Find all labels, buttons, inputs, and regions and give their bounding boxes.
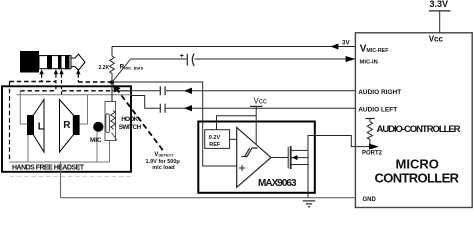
Vcc supply MAX9063 bbox=[217, 97, 267, 145]
wire node to hook switch bbox=[111, 82, 113, 101]
svg-text:+: + bbox=[180, 53, 184, 60]
wire AUDIO LEFT bbox=[131, 96, 160, 109]
svg-text:MAX9063: MAX9063 bbox=[258, 178, 297, 189]
transistor Q1 nmos bbox=[271, 146, 308, 169]
svg-text:MIC-IN: MIC-IN bbox=[360, 60, 378, 66]
jack contact arrow tip bbox=[76, 69, 80, 82]
wire tip to node dashed bbox=[78, 81, 110, 83]
svg-text:REF: REF bbox=[209, 142, 221, 148]
wire ring2 dashed left bbox=[20, 90, 56, 92]
wire ring2 dashed right bbox=[62, 90, 112, 92]
svg-text:VDETECT: VDETECT bbox=[154, 152, 174, 158]
arrow PORT2 bbox=[369, 144, 379, 150]
capacitor C1 polarized bbox=[180, 53, 194, 66]
wire MIC-IN diagonal bbox=[112, 59, 131, 82]
wire sleeve dashed left bbox=[10, 81, 56, 83]
wire mic ground drop bbox=[96, 132, 98, 162]
hands free headset box bbox=[2, 86, 131, 172]
wire drain to PORT2 bbox=[308, 136, 369, 151]
svg-text:GND: GND bbox=[363, 197, 377, 203]
svg-text:CONTROLLER: CONTROLLER bbox=[375, 171, 460, 186]
svg-text:3.3V: 3.3V bbox=[430, 0, 449, 9]
node mic-bias junction bbox=[110, 80, 114, 84]
arrow audio right bbox=[184, 88, 192, 94]
V_DETECT probe arrow bbox=[113, 84, 180, 171]
svg-text:HANDS FREE HEADSET: HANDS FREE HEADSET bbox=[12, 165, 85, 172]
svg-text:AUDIO RIGHT: AUDIO RIGHT bbox=[358, 89, 401, 96]
microcontroller box U2 bbox=[355, 33, 472, 208]
speaker R bbox=[60, 100, 80, 153]
wire hook ground drop bbox=[109, 141, 111, 163]
svg-text:MIC: MIC bbox=[90, 137, 102, 144]
arrow audio left bbox=[184, 105, 192, 111]
arrow MIC-IN in bbox=[346, 56, 356, 62]
capacitor C3 bbox=[160, 104, 165, 113]
svg-text:2.2K: 2.2K bbox=[99, 65, 110, 71]
wire sleeve dashed rail down bbox=[9, 82, 11, 163]
jack contact arrow ring1 bbox=[59, 69, 63, 95]
svg-text:RMIC_BIAS: RMIC_BIAS bbox=[120, 64, 144, 71]
wire headset to ground bus bbox=[60, 162, 62, 198]
svg-text:mic load: mic load bbox=[152, 165, 174, 171]
svg-text:MICRO: MICRO bbox=[396, 156, 439, 171]
headset box ghost dashed bottom bbox=[10, 176, 132, 178]
headset jack plug P1 bbox=[20, 51, 85, 73]
wire common return bbox=[10, 161, 110, 163]
op-amp comparator U1A bbox=[237, 128, 271, 188]
jack contact arrow ring2 bbox=[54, 69, 58, 91]
microphone MIC bbox=[90, 122, 103, 144]
wire L speaker feed bbox=[20, 91, 27, 124]
svg-text:L: L bbox=[38, 122, 44, 133]
MAX9063 box U1 bbox=[198, 122, 314, 193]
resistor AUDIO-CONTROLLER bbox=[365, 119, 460, 147]
svg-text:PORT2: PORT2 bbox=[362, 151, 383, 157]
wire L speaker ground drop bbox=[27, 135, 29, 162]
wire node to comparator bbox=[112, 82, 237, 166]
wire ring1 horizontal bbox=[17, 94, 132, 96]
svg-text:AUDIO LEFT: AUDIO LEFT bbox=[358, 107, 397, 114]
ground bus wire bbox=[61, 197, 356, 199]
resistor R_MIC_BIAS 2.2K bbox=[99, 47, 144, 81]
svg-text:SWITCH: SWITCH bbox=[119, 124, 142, 131]
wire V_MIC-REF (3V) bbox=[112, 46, 355, 48]
wire R speaker feed bbox=[80, 95, 88, 124]
wire source to ground bbox=[307, 150, 309, 197]
ground symbol bbox=[303, 201, 315, 207]
wire MIC-IN bbox=[131, 58, 187, 60]
speaker L bbox=[27, 100, 44, 153]
svg-text:Vcc: Vcc bbox=[254, 97, 267, 106]
arrow V_MIC-REF out bbox=[330, 44, 338, 50]
svg-text:0.2V: 0.2V bbox=[209, 135, 221, 141]
svg-text:AUDIO-CONTROLLER: AUDIO-CONTROLLER bbox=[377, 124, 461, 135]
3.3V supply bbox=[429, 0, 451, 44]
jack contact arrow sleeve bbox=[39, 69, 43, 81]
svg-text:HOOK: HOOK bbox=[121, 116, 138, 123]
wire AUDIO RIGHT bbox=[131, 90, 160, 92]
capacitor C2 bbox=[160, 86, 165, 95]
hook switch SW1 bbox=[105, 102, 142, 141]
0.2V REF box bbox=[205, 130, 237, 149]
svg-text:3V: 3V bbox=[342, 40, 350, 47]
svg-text:R: R bbox=[63, 120, 71, 131]
svg-text:Vcc: Vcc bbox=[429, 35, 444, 44]
svg-text:1.9V for 500μ: 1.9V for 500μ bbox=[146, 159, 180, 165]
